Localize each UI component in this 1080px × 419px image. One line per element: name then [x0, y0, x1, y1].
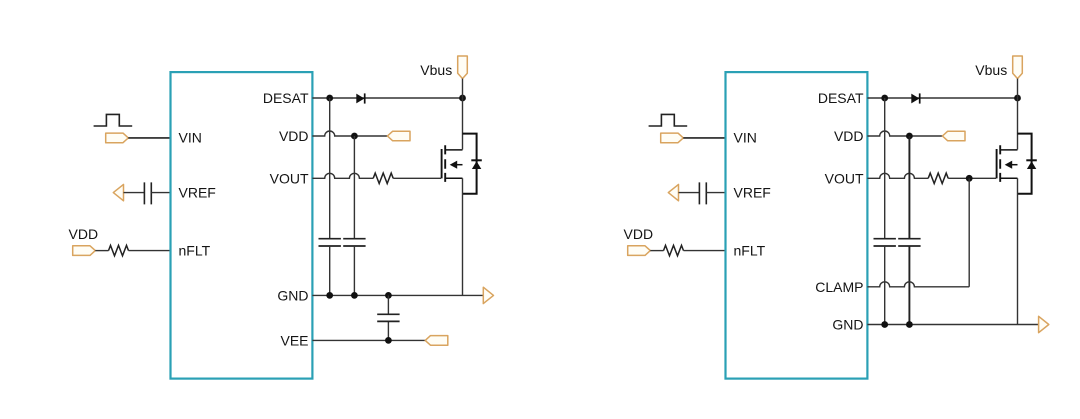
svg-text:GND: GND	[832, 317, 863, 333]
svg-text:VEE: VEE	[280, 332, 308, 348]
svg-text:CLAMP: CLAMP	[815, 279, 863, 295]
svg-text:GND: GND	[277, 287, 308, 303]
